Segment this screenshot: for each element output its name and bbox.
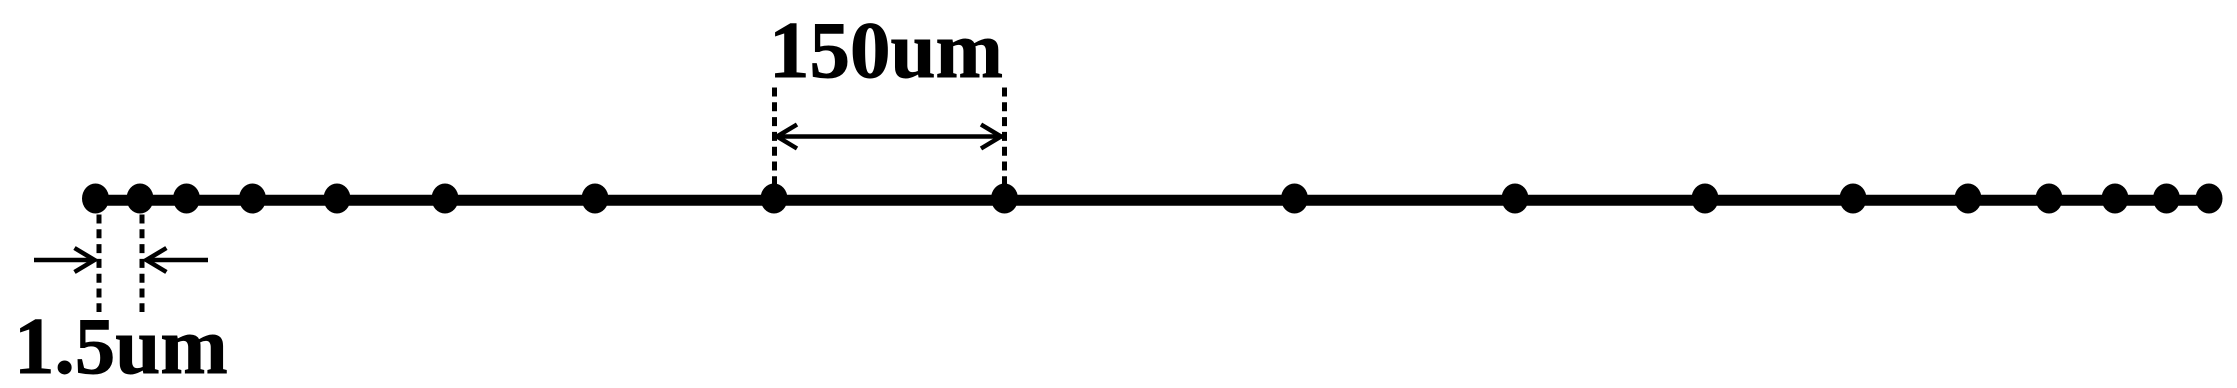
grating dot 4 — [239, 184, 266, 214]
grating dot 8 — [761, 184, 788, 214]
grating dot 5 — [324, 184, 351, 214]
grating dot 15 — [2036, 184, 2063, 214]
grating dot 13 — [1840, 184, 1867, 214]
grating dot 11 — [1502, 184, 1529, 214]
dimension extension dashed line at 1.5um right — [140, 215, 145, 313]
dimension extension dashed line at 150um right — [1002, 88, 1007, 187]
main fiber line — [88, 195, 2218, 206]
grating dot 17 — [2153, 184, 2180, 214]
grating dot 2 — [127, 184, 154, 214]
grating dot 10 — [1281, 184, 1308, 214]
svg-text:150um: 150um — [769, 5, 1003, 95]
grating dot 18 — [2196, 184, 2223, 214]
grating dot 16 — [2102, 184, 2129, 214]
150um dimension arrow shaft — [775, 134, 1003, 139]
1.5um left arrow shaft — [34, 258, 93, 263]
1.5um right arrow shaft — [147, 258, 208, 263]
grating dot 6 — [432, 184, 459, 214]
1.5um left arrowhead — [75, 248, 95, 272]
dimension extension dashed line at 1.5um left — [97, 215, 102, 313]
150um arrowhead right — [981, 125, 1001, 149]
1.5um right arrowhead — [146, 248, 166, 272]
grating dot 9 — [991, 184, 1018, 214]
grating dot 7 — [582, 184, 609, 214]
grating dot 14 — [1955, 184, 1982, 214]
grating dot 3 — [173, 184, 200, 214]
dimension extension dashed line at 150um left — [772, 88, 777, 187]
grating dot 12 — [1692, 184, 1719, 214]
grating dot 1 — [82, 184, 109, 214]
svg-text:1.5um: 1.5um — [14, 301, 228, 388]
150um arrowhead left — [777, 125, 797, 149]
